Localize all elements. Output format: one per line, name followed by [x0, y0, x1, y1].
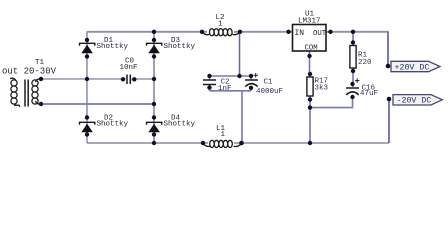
diode D2 [80, 122, 95, 132]
node C2 bottom [207, 85, 211, 89]
wire R1 top branch [352, 32, 354, 46]
svg-text:1nF: 1nF [218, 85, 232, 93]
node D3 pin bottom [152, 54, 156, 58]
svg-text:LM317: LM317 [298, 18, 321, 26]
node adj junction [308, 105, 312, 109]
wire U1 IN stub [289, 31, 293, 33]
capacitor C2 [203, 80, 216, 85]
op-amp U1 regulator box [293, 25, 327, 52]
capacitor C16 polarized [346, 78, 359, 95]
node C1 top [249, 74, 253, 78]
node D1 cathode pin [85, 54, 89, 58]
node C16 top [350, 82, 354, 86]
node D1 anode pin [85, 38, 89, 42]
svg-text:4000uF: 4000uF [256, 88, 283, 96]
wire R17 bottom to bottom rail [309, 96, 311, 143]
connector flag -20V DC [393, 95, 442, 106]
node AC1 branch1 [85, 77, 89, 81]
node C1 bottom [249, 86, 253, 90]
svg-text:Shottky: Shottky [97, 43, 129, 51]
node D4 pin bottom [152, 132, 156, 136]
node U1 OUT pin [328, 30, 332, 34]
node branch2 bottom rail [152, 141, 156, 145]
node T1 top terminal [39, 77, 43, 81]
svg-text:-20V DC: -20V DC [397, 97, 432, 106]
wire U1 COM to R17 [309, 51, 311, 77]
wire C16 bottom to adj node [310, 96, 353, 108]
node R1 top pin [351, 40, 355, 44]
node R1 rail junction [351, 30, 355, 34]
node +20V tap [386, 64, 391, 69]
svg-text:3k3: 3k3 [315, 85, 329, 93]
node R17 bottom rail [308, 141, 312, 145]
node L2 right pin [238, 30, 242, 34]
wire cap bottom to bottom rail [241, 91, 243, 143]
node AC1 branch2 [152, 77, 156, 81]
diode D3 [147, 43, 162, 53]
svg-text:OUT: OUT [313, 30, 327, 38]
node C16 bottom [350, 95, 354, 99]
wire branch1 vertical [86, 31, 88, 143]
capacitor C1 polarized [245, 73, 258, 87]
node R17 top pin [308, 72, 312, 76]
node D3 pin top [152, 38, 156, 42]
svg-text:IN: IN [295, 29, 305, 38]
wire C2 stubs [209, 76, 211, 91]
node cap top junction [237, 74, 241, 78]
node L1 left pin [201, 141, 205, 145]
node D4 pin top [152, 115, 156, 119]
node -20V tap [387, 97, 392, 102]
connector flag +20V DC [391, 61, 440, 72]
node AC2 branch2 [152, 102, 156, 106]
diode D4 [147, 122, 162, 132]
node D2 pin top [85, 115, 89, 119]
wire L2 output to cap top [239, 32, 241, 76]
diode D1 [80, 43, 95, 53]
svg-text:Shottky: Shottky [164, 43, 196, 51]
svg-text:1: 1 [221, 131, 226, 139]
node branch2 top rail [152, 30, 156, 34]
svg-text:C1: C1 [264, 79, 274, 87]
wire cap bottom node [210, 90, 252, 92]
wire C1 stubs [250, 76, 252, 91]
svg-text:220: 220 [358, 59, 372, 67]
inductor L1 [203, 140, 242, 147]
node C0 left [121, 77, 125, 81]
svg-text:Shottky: Shottky [97, 120, 129, 128]
resistor R1 [350, 46, 356, 69]
wire +20V drop [387, 31, 389, 66]
node C0 right [132, 77, 136, 81]
svg-text:COM: COM [305, 45, 318, 53]
wire AC2 bottom secondary [41, 103, 154, 105]
wire U1 OUT stub [326, 31, 331, 33]
capacitor C0 [127, 75, 130, 85]
wire bottom rail [87, 142, 389, 144]
node U1 IN pin [286, 30, 290, 34]
wire -20V rise [388, 99, 390, 143]
node L1 right pin [239, 141, 244, 146]
node C2 top [207, 74, 211, 78]
svg-text:out 20-30V: out 20-30V [2, 67, 57, 77]
node T1 bottom terminal [39, 102, 43, 106]
transformer T1 [10, 78, 41, 107]
node L2 left pin [200, 30, 204, 34]
wire R1 bottom to C16 [352, 68, 354, 87]
svg-text:+20V DC: +20V DC [395, 63, 430, 72]
node U1 COM pin [307, 54, 311, 58]
node D2 pin bottom [85, 132, 89, 136]
node R17 bottom pin [308, 97, 312, 101]
resistor R17 [307, 77, 313, 96]
wire top rail [87, 31, 388, 33]
wire cap top node [210, 75, 252, 77]
inductor L2 [202, 29, 240, 36]
wire branch2 vertical [153, 31, 155, 143]
svg-text:47uF: 47uF [360, 90, 378, 98]
wire AC1 top secondary [41, 78, 154, 80]
svg-text:10nF: 10nF [120, 64, 138, 72]
svg-text:Shottky: Shottky [164, 120, 196, 128]
svg-text:1: 1 [218, 21, 223, 29]
node R1 bottom pin [351, 69, 355, 73]
